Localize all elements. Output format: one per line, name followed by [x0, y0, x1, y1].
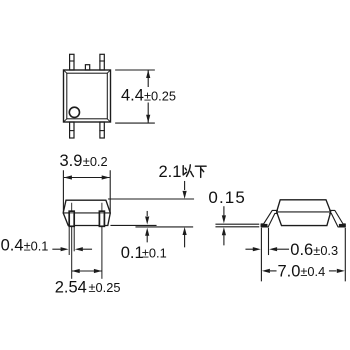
- svg-text:7.0: 7.0: [278, 262, 301, 280]
- front view mold parting line: [63, 212, 110, 214]
- pin 2 top-right lead (top view): [100, 54, 104, 70]
- kanji 以 (ika = or less): [183, 165, 206, 178]
- dim 0.1 body bottom extension line: [111, 224, 156, 226]
- kanji 下: [195, 166, 206, 177]
- front view lead hidden line right: [101, 203, 103, 211]
- extension line left lead center: [71, 227, 73, 278]
- dim 0.1 seating plane line: [136, 226, 193, 228]
- center tab (top view): [85, 65, 89, 70]
- dim 0.4 right arrow: [83, 248, 92, 250]
- svg-text:±0.1: ±0.1: [142, 246, 167, 261]
- svg-text:±0.2: ±0.2: [83, 154, 108, 169]
- dim 7.0 dimension line right segment: [330, 270, 336, 272]
- dim 4.4 extension line bottom: [116, 122, 155, 124]
- dim 0.6 extension line foot heel: [268, 228, 270, 254]
- pin 4 bottom-left lead (top view): [70, 122, 74, 138]
- top view body outer outline: [64, 70, 111, 122]
- dim 3.9 arrowheads: [64, 175, 110, 179]
- pin 1 top-left lead (top view): [70, 54, 74, 70]
- front view right lead crimp mark: [101, 212, 104, 214]
- dim 0.15 lower arrow: [223, 235, 225, 245]
- svg-text:2.54: 2.54: [55, 278, 87, 296]
- front view lead hidden line left: [71, 203, 73, 211]
- dim 0.6 extension line foot tip: [260, 228, 262, 280]
- dim 2.1 lower arrow: [184, 235, 186, 247]
- dim 4.4 extension line top: [116, 69, 155, 71]
- dim 3.9 extension line left: [62, 171, 64, 212]
- top view body corner miters: [64, 70, 111, 122]
- extension line left lead right edge: [73, 227, 75, 251]
- dim 4.4 dimension line: [147, 70, 149, 122]
- svg-text:0.15: 0.15: [208, 188, 246, 207]
- dim 0.15 lead thickness lines: [216, 224, 259, 227]
- dim 7.0 extension line right: [344, 228, 346, 280]
- front view left lead: [69, 211, 74, 226]
- pin 2 shoulder line: [100, 60, 104, 62]
- dim 0.15 upper arrow: [223, 207, 225, 216]
- front view left lead crimp mark: [70, 212, 73, 214]
- side view body hexagon: [277, 200, 331, 226]
- svg-text:0.6: 0.6: [290, 241, 313, 259]
- extension line right lead center: [101, 227, 103, 278]
- svg-text:±0.25: ±0.25: [144, 88, 176, 103]
- dim 0.6 left arrow: [246, 248, 253, 250]
- extension line left lead left edge: [68, 227, 70, 255]
- dim 2.1 top extension line: [109, 198, 194, 200]
- svg-text:0.1: 0.1: [121, 244, 144, 262]
- dim 4.4 arrowheads: [146, 70, 150, 123]
- dim 0.6 right arrow: [277, 248, 289, 250]
- dim 2.54 dimension line: [72, 270, 101, 272]
- dim 7.0 dimension line left segment: [271, 270, 277, 272]
- svg-text:±0.3: ±0.3: [313, 243, 338, 258]
- pin 3 bottom-right lead (top view): [100, 122, 104, 138]
- dim 0.1 lower arrow: [146, 236, 148, 242]
- svg-text:±0.25: ±0.25: [89, 280, 121, 295]
- dim 0.1 upper arrow: [146, 212, 148, 216]
- svg-text:4.4: 4.4: [121, 87, 144, 105]
- front view right lead: [99, 211, 104, 226]
- svg-text:±0.4: ±0.4: [300, 264, 325, 279]
- dim 3.9 dimension line: [65, 177, 110, 179]
- side view mold parting line: [277, 211, 331, 213]
- dim 7.0 left arrowhead: [262, 269, 270, 273]
- dim 2.1 upper arrow: [184, 182, 186, 190]
- pin 1 shoulder line: [70, 60, 74, 62]
- dim 3.9 extension line right: [109, 171, 111, 212]
- side view right lead foot fill: [339, 224, 345, 227]
- side view right gull-wing lead: [330, 210, 346, 227]
- top view body inner outline: [67, 73, 108, 119]
- svg-text:±0.1: ±0.1: [24, 238, 49, 253]
- side view left lead foot fill: [261, 224, 267, 227]
- pin 3 shoulder line: [100, 130, 104, 132]
- dim 0.4 left arrow: [53, 248, 61, 250]
- svg-text:2.1: 2.1: [159, 163, 182, 181]
- pin 4 shoulder line: [70, 130, 74, 132]
- pin 1 index circle: [69, 107, 79, 117]
- front view body hexagon: [63, 200, 110, 225]
- dim 7.0 right arrowhead: [337, 269, 345, 273]
- svg-text:0.4: 0.4: [1, 237, 24, 255]
- side view left gull-wing lead: [261, 210, 277, 227]
- dim 2.54 arrowheads: [72, 269, 102, 273]
- svg-text:3.9: 3.9: [60, 152, 83, 170]
